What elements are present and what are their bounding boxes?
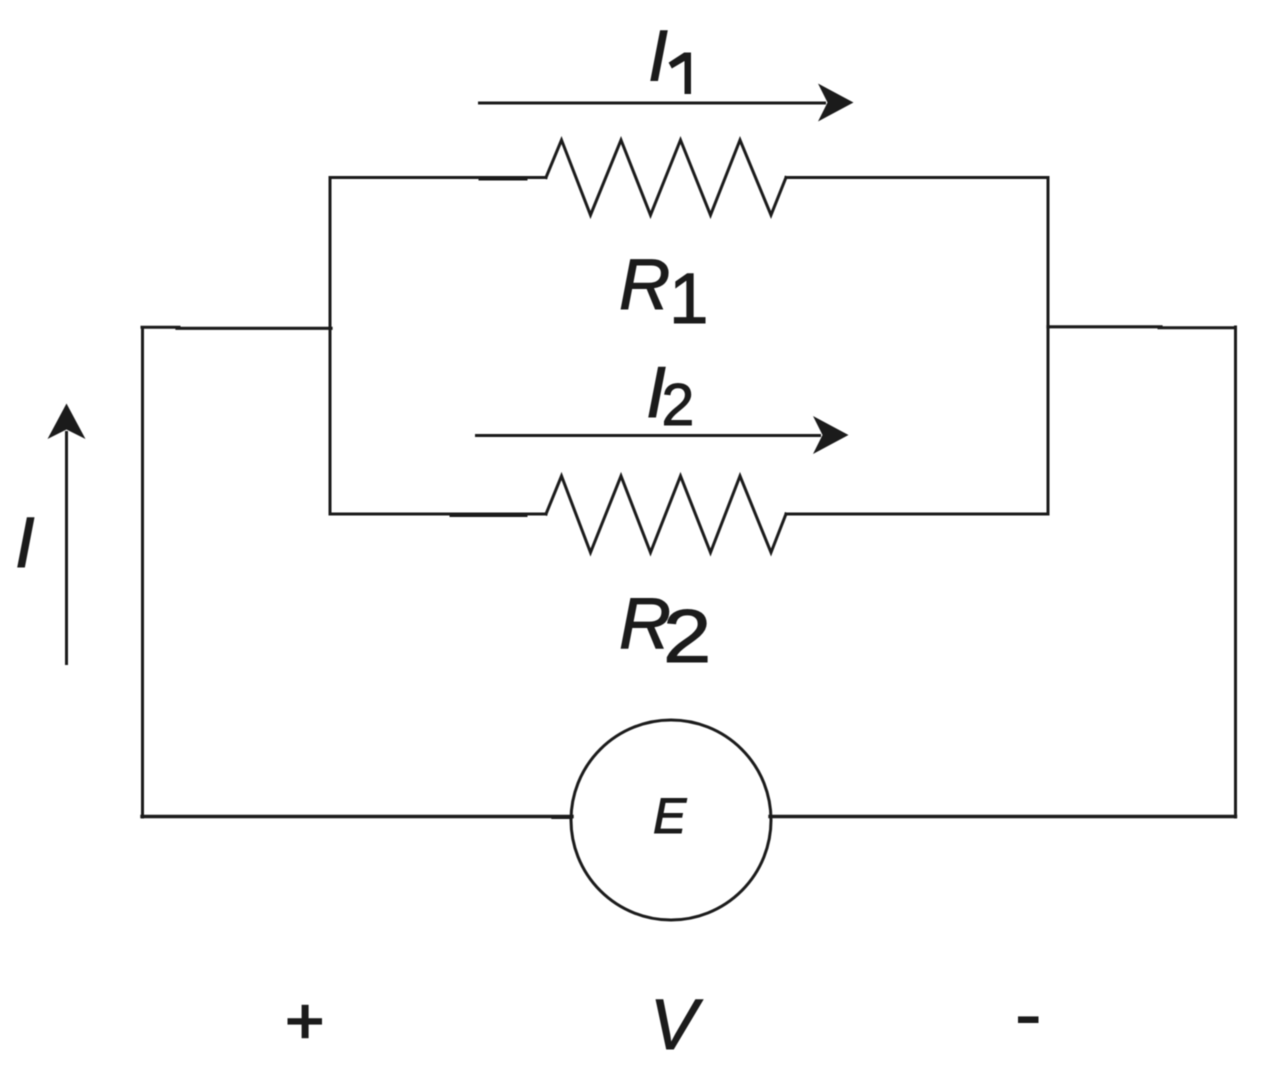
wire: bottom branch lead overlap artifact (451, 514, 526, 517)
wire: bottom branch right lead (786, 513, 1048, 516)
wire: right parallel junction vertical (1047, 178, 1050, 515)
current arrow I1 shaft (478, 102, 826, 105)
svg-text:2: 2 (662, 372, 695, 438)
svg-text:E: E (653, 788, 687, 844)
wire: mid-right horizontal (outer part) (1159, 326, 1236, 329)
wire: left vertical branch (141, 328, 144, 817)
wire: top branch right lead (786, 176, 1048, 179)
resistor R2 (546, 476, 786, 553)
wire: mid-left horizontal (left part) (142, 326, 179, 329)
wire: top branch left lead (330, 176, 546, 179)
label I2 (646, 353, 694, 438)
svg-text:1: 1 (669, 260, 709, 339)
svg-text:I: I (15, 504, 35, 583)
resistor R1 (546, 140, 786, 215)
current arrow I1 head (818, 84, 854, 122)
svg-text:V: V (650, 986, 703, 1065)
current arrow I head (48, 404, 86, 440)
current arrow I2 head (813, 416, 849, 454)
svg-text:I: I (648, 17, 668, 97)
wire: bottom wire joint artifact near source (553, 816, 571, 819)
wire: top branch lead overlap artifact (480, 178, 526, 181)
current arrow I shaft (left, pointing up) (65, 431, 68, 665)
svg-text:R: R (619, 246, 670, 325)
wire: bottom left to source E (142, 815, 572, 818)
wire: mid-left horizontal (right part) (177, 327, 331, 330)
wire: source E to bottom right (770, 815, 1236, 818)
wire: bottom branch left lead (330, 513, 546, 516)
svg-text:2: 2 (663, 595, 711, 679)
label R1 (619, 246, 709, 339)
wire: mid-right horizontal (inner part) (1048, 325, 1161, 328)
label I1 (648, 17, 691, 97)
current arrow I2 shaft (475, 434, 821, 437)
wire: left parallel junction vertical (329, 178, 332, 515)
source E circle (571, 720, 771, 920)
label R2 (619, 584, 711, 679)
label + (positive terminal) (288, 1005, 323, 1038)
label - (negative terminal) (1018, 1016, 1039, 1023)
wire: right vertical branch (1234, 327, 1237, 817)
